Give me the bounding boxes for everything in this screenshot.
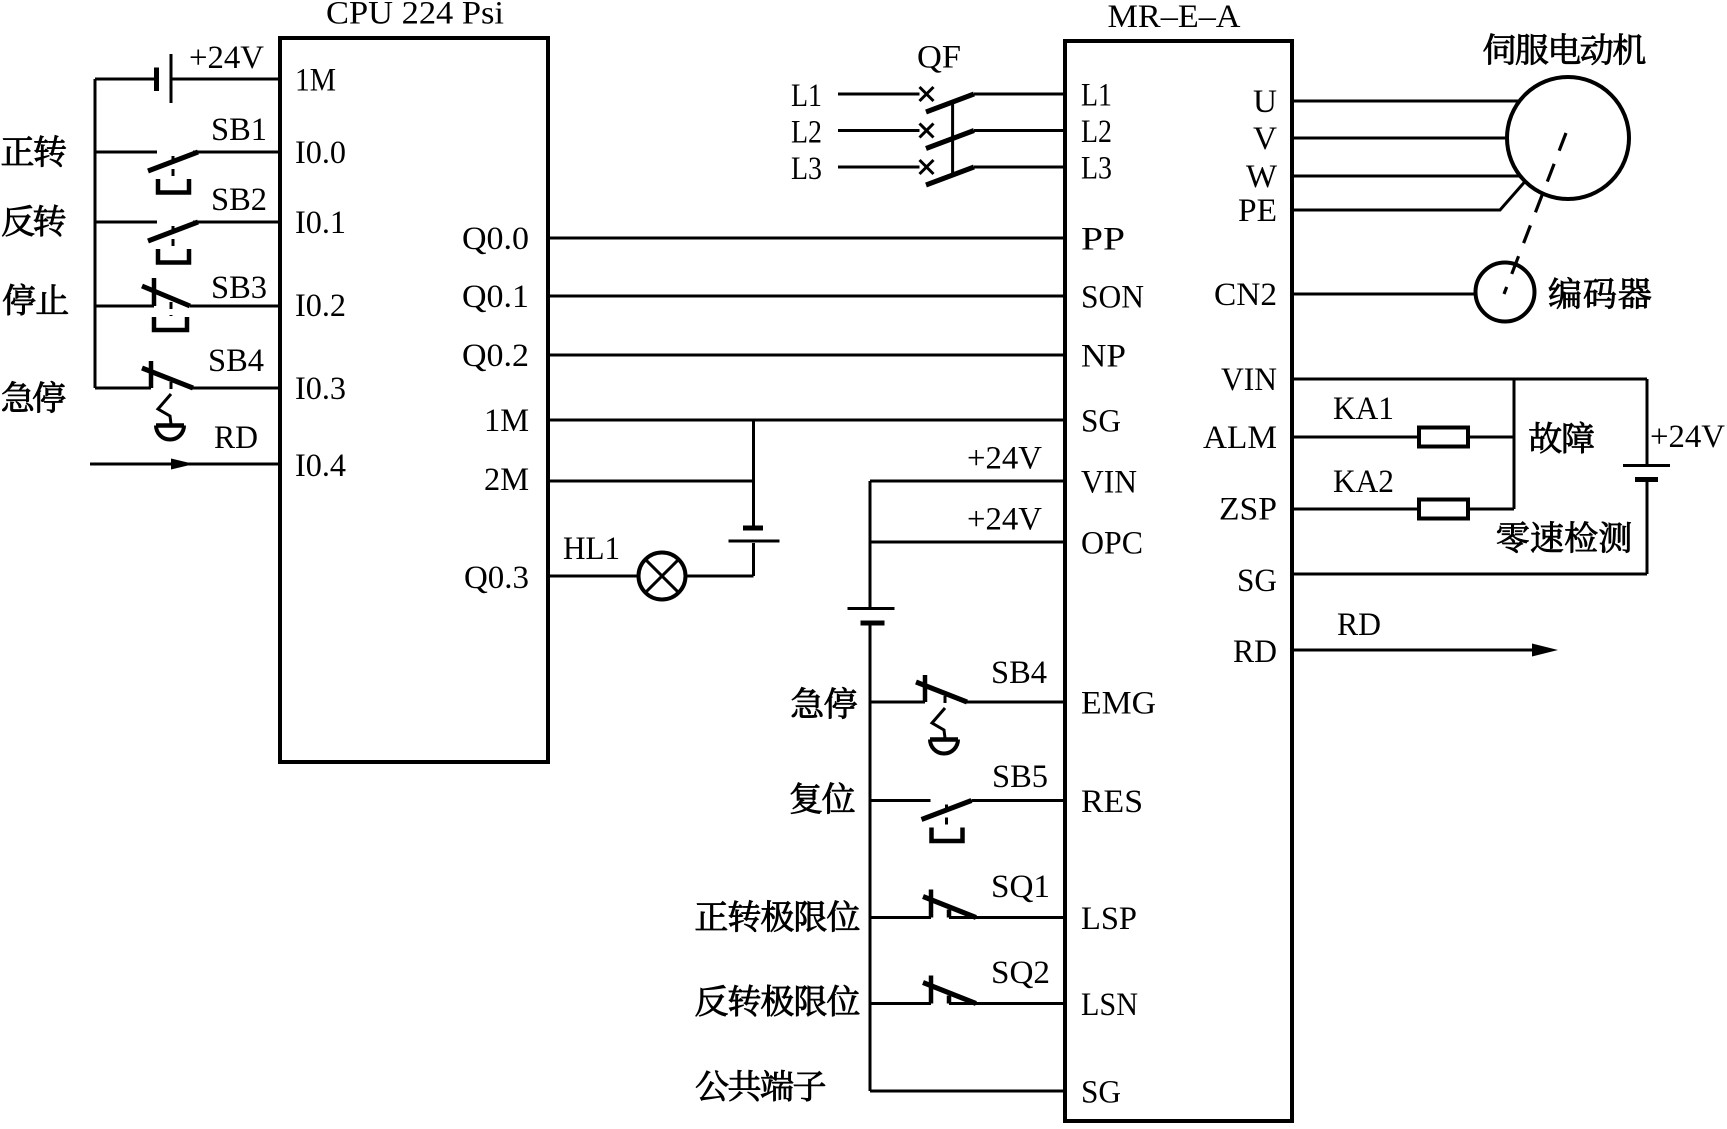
wire bus to SB1	[95, 151, 157, 154]
svg-text:L1: L1	[791, 78, 822, 114]
svg-text:KA2: KA2	[1333, 464, 1394, 500]
label 伺服电动机 (servo motor)	[1484, 33, 1646, 64]
wire VIN (right)	[1292, 378, 1647, 381]
svg-text:RES: RES	[1081, 784, 1143, 820]
wire V to motor	[1292, 137, 1507, 140]
label 零速检测 (zero speed detection)	[1497, 521, 1630, 552]
wire lamp to branch	[686, 575, 754, 578]
svg-text:V: V	[1253, 121, 1277, 157]
svg-text:RD: RD	[214, 420, 258, 456]
wire QF to L3 pin	[974, 166, 1065, 169]
wire bus to battery	[95, 78, 154, 81]
wire L1 to QF	[838, 93, 920, 96]
svg-text:L3: L3	[791, 151, 822, 187]
svg-text:VIN: VIN	[1081, 465, 1137, 501]
wire QF to L2 pin	[974, 129, 1065, 132]
svg-text:Q0.0: Q0.0	[462, 221, 529, 257]
svg-text:+24V: +24V	[967, 502, 1042, 538]
label 正转极限位 (forward limit)	[696, 900, 859, 931]
label 故障 (fault)	[1530, 422, 1594, 454]
svg-text:ALM: ALM	[1203, 420, 1277, 456]
wire battery to lamp level	[752, 543, 755, 576]
limit switch SQ2 (NC)	[923, 976, 976, 1004]
wire: control bus vertical upper	[869, 481, 872, 607]
svg-text:RD: RD	[1233, 634, 1277, 670]
svg-text:HL1: HL1	[563, 531, 620, 567]
svg-text:I0.4: I0.4	[295, 448, 346, 484]
wire bus to SB3	[95, 305, 154, 308]
wire bus to SQ1	[870, 916, 931, 919]
arrowhead RD into I0.4	[171, 459, 194, 470]
relay coil KA2	[1419, 500, 1468, 519]
svg-text:L2: L2	[1081, 114, 1112, 150]
servo drive box: MR-E-A	[1065, 41, 1292, 1121]
wire bus to SB5	[870, 799, 931, 802]
breaker QF pole L1 blade	[926, 94, 974, 112]
breaker QF pole L3 cross	[920, 160, 934, 174]
svg-text:LSN: LSN	[1081, 987, 1138, 1023]
wire KA2 to junction	[1468, 508, 1514, 511]
pushbutton SB1 (NO)	[148, 152, 198, 193]
wire VIN down to battery	[1646, 379, 1649, 464]
wire bus to SB2	[95, 221, 157, 224]
wire SB3 to I0.2	[190, 305, 280, 308]
label 复位 (reset)	[791, 783, 855, 814]
svg-text:SB4: SB4	[208, 343, 264, 379]
wire Q0.2 to NP	[548, 354, 1065, 357]
svg-text:I0.1: I0.1	[295, 205, 346, 241]
wire ZSP to KA2	[1292, 508, 1419, 511]
wire OPC branch	[870, 541, 1065, 544]
svg-text:I0.3: I0.3	[295, 371, 346, 407]
svg-text:SQ2: SQ2	[991, 955, 1050, 991]
wire SQ2 to LSN	[949, 1002, 1065, 1005]
wire RD output	[1292, 649, 1545, 652]
svg-text:ZSP: ZSP	[1219, 492, 1277, 528]
battery +24V (left supply): positive long plate	[170, 54, 173, 103]
wire SB5 to RES	[972, 799, 1066, 802]
svg-text:QF: QF	[917, 40, 961, 76]
wire ALM to KA1	[1292, 436, 1419, 439]
wire Q0.1 to SON	[548, 295, 1065, 298]
svg-text:SB2: SB2	[211, 182, 267, 218]
svg-text:1M: 1M	[484, 403, 529, 439]
limit switch SQ1 (NC)	[923, 890, 976, 918]
wire SQ1 to LSP	[949, 916, 1065, 919]
arrowhead RD output	[1532, 644, 1558, 657]
wire SG (right)	[1292, 573, 1647, 576]
label 编码器 (encoder)	[1549, 277, 1651, 309]
wire SB2 to I0.1	[193, 221, 280, 224]
svg-text:I0.2: I0.2	[295, 288, 346, 324]
wire junction: lamp branch vertical upper	[752, 420, 755, 526]
wire bus to SB4(EMG)	[870, 701, 925, 704]
wire junction vertical at KA outputs	[1513, 379, 1516, 509]
wire bus to SQ2	[870, 1002, 931, 1005]
battery +24V (left supply): negative short plate	[154, 68, 159, 92]
label 公共端子 (common terminal)	[696, 1070, 825, 1101]
svg-text:L2: L2	[791, 115, 822, 151]
wire battery down to SG	[1646, 482, 1649, 574]
wire 1M to SG	[548, 419, 1065, 422]
svg-text:+24V: +24V	[189, 40, 264, 76]
svg-text:+24V: +24V	[967, 441, 1042, 477]
emergency stop button SB4 for EMG	[916, 675, 967, 754]
servo motor M circle	[1507, 77, 1629, 199]
battery (lamp supply): negative short plate	[743, 526, 763, 531]
wire QF to L1 pin	[974, 93, 1065, 96]
battery +24V (right): negative short plate	[1635, 477, 1658, 482]
svg-text:VIN: VIN	[1221, 362, 1277, 398]
svg-text:SB4: SB4	[991, 655, 1047, 691]
wire L3 to QF	[838, 166, 920, 169]
wire bus to SG (bottom)	[870, 1090, 1065, 1093]
svg-text:OPC: OPC	[1081, 526, 1143, 562]
battery +24V (right): positive long plate	[1623, 464, 1670, 467]
battery (control supply): positive long plate	[848, 607, 895, 610]
wire Q0.3 to lamp HL1	[548, 575, 639, 578]
svg-text:SON: SON	[1081, 280, 1144, 316]
pushbutton SB2 (NO)	[148, 222, 198, 263]
svg-text:CN2: CN2	[1214, 277, 1277, 313]
svg-text:NP: NP	[1081, 339, 1126, 375]
svg-text:+24V: +24V	[1650, 419, 1725, 455]
wire PE to motor	[1292, 182, 1525, 211]
breaker QF pole L1 cross	[920, 87, 934, 101]
svg-text:U: U	[1253, 84, 1277, 120]
label 急停 (emergency stop, EMG)	[792, 687, 857, 719]
PLC CPU box: CPU 224 Psi	[280, 38, 548, 762]
wire bus to SB4	[95, 387, 151, 390]
wire battery to CPU pin 1M	[171, 78, 280, 81]
wire SB1 to I0.0	[193, 151, 280, 154]
wire KA1 to junction	[1468, 436, 1514, 439]
svg-text:1M: 1M	[295, 63, 336, 99]
svg-text:2M: 2M	[484, 462, 529, 498]
wire U to motor	[1292, 100, 1520, 103]
svg-text:Q0.3: Q0.3	[464, 560, 529, 596]
svg-text:SB1: SB1	[211, 112, 267, 148]
wire W to motor	[1292, 175, 1520, 178]
svg-text:SB3: SB3	[211, 270, 267, 306]
battery (lamp supply): positive long plate	[729, 540, 780, 543]
breaker QF linkage bar	[951, 102, 954, 175]
svg-text:LSP: LSP	[1081, 901, 1137, 937]
breaker QF pole L2 cross	[920, 124, 934, 138]
label 正转 (forward)	[2, 135, 66, 166]
svg-text:RD: RD	[1337, 607, 1381, 643]
label 反转 (reverse)	[2, 205, 65, 236]
battery (control supply): negative short plate	[861, 621, 885, 626]
wire: left bus from +24V battery down to SB4 row	[94, 79, 97, 388]
pushbutton SB3 (NC)	[142, 278, 190, 330]
svg-text:CPU 224 Psi: CPU 224 Psi	[326, 0, 504, 32]
wire: control bus vertical lower	[869, 625, 872, 1091]
svg-text:KA1: KA1	[1333, 391, 1394, 427]
relay coil KA1	[1419, 428, 1468, 447]
label 停止 (stop)	[3, 284, 68, 316]
wire CN2 to encoder	[1292, 293, 1475, 296]
svg-text:W: W	[1246, 159, 1278, 195]
label 反转极限位 (reverse limit)	[696, 985, 860, 1016]
wire SB4 to I0.3	[192, 387, 280, 390]
svg-text:PE: PE	[1238, 193, 1277, 229]
svg-text:PP: PP	[1081, 222, 1125, 258]
wire RD signal into I0.4	[90, 463, 280, 466]
wire Q0.0 to PP	[548, 237, 1065, 240]
svg-text:SG: SG	[1081, 1075, 1121, 1111]
svg-text:SQ1: SQ1	[991, 869, 1050, 905]
wire VIN branch	[870, 480, 1065, 483]
svg-text:L3: L3	[1081, 151, 1112, 187]
lamp HL1	[639, 553, 686, 600]
wire SB4 to EMG	[966, 701, 1065, 704]
motor shaft dashed link to encoder	[1504, 133, 1566, 294]
svg-text:I0.0: I0.0	[295, 135, 346, 171]
pushbutton SB5 (NO)	[922, 801, 972, 842]
svg-text:Q0.2: Q0.2	[462, 338, 529, 374]
svg-text:L1: L1	[1081, 78, 1112, 114]
svg-text:SG: SG	[1081, 404, 1121, 440]
breaker QF pole L3 blade	[926, 167, 974, 185]
svg-text:Q0.1: Q0.1	[462, 279, 529, 315]
breaker QF pole L2 blade	[926, 131, 974, 149]
wire 2M to lamp branch	[548, 480, 754, 483]
wire L2 to QF	[838, 129, 920, 132]
svg-text:EMG: EMG	[1081, 686, 1156, 722]
svg-text:SG: SG	[1237, 563, 1277, 599]
label 急停 (emergency stop)	[2, 381, 65, 413]
emergency stop button SB4 (NC mushroom)	[142, 361, 193, 440]
svg-text:MR–E–A: MR–E–A	[1108, 0, 1241, 35]
encoder circle	[1476, 263, 1535, 322]
svg-text:SB5: SB5	[992, 759, 1048, 795]
